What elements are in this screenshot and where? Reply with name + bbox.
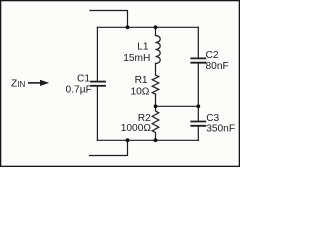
svg-text:15mH: 15mH: [123, 53, 150, 64]
resistor R1: [152, 75, 159, 94]
svg-text:1000Ω: 1000Ω: [121, 123, 152, 134]
resistor R2: [152, 106, 159, 140]
wire middle rail: [156, 105, 199, 107]
svg-text:C3: C3: [206, 113, 219, 124]
wire C3 to bottom rail: [197, 126, 199, 141]
node junction bottom left: [126, 138, 130, 142]
svg-text:10Ω: 10Ω: [130, 86, 149, 97]
svg-text:L1: L1: [137, 42, 149, 53]
svg-text:350nF: 350nF: [206, 124, 235, 135]
wire right branch upper: [197, 27, 199, 58]
svg-text:0.7µF: 0.7µF: [66, 85, 92, 96]
svg-text:80nF: 80nF: [206, 61, 229, 72]
wire left branch upper: [96, 27, 98, 81]
capacitor C3: [191, 122, 205, 126]
svg-text:R1: R1: [135, 75, 148, 86]
svg-text:C2: C2: [206, 50, 219, 61]
node junction top L1: [154, 25, 158, 29]
node junction mid right: [196, 104, 200, 108]
wire mid rail to C3: [197, 106, 199, 121]
wire top rail: [97, 26, 198, 28]
input impedance arrow: [28, 80, 49, 86]
image border frame: [1, 1, 240, 167]
wire L1 to R1: [155, 64, 157, 76]
wire R1 to mid rail: [155, 94, 157, 106]
capacitor C1: [91, 82, 105, 86]
node junction bottom R2: [154, 138, 158, 142]
wire C2 to mid rail: [197, 63, 199, 107]
node junction mid left: [154, 104, 158, 108]
wire top input stub: [90, 11, 128, 28]
wire top of L1: [155, 27, 157, 35]
svg-text:C1: C1: [77, 74, 90, 85]
node junction top-left: [126, 25, 130, 29]
wire bottom output stub: [90, 140, 128, 155]
wire bottom rail: [97, 139, 198, 141]
capacitor C2: [191, 58, 205, 62]
wire left branch lower: [96, 86, 98, 141]
svg-text:ZIN: ZIN: [11, 78, 25, 89]
inductor L1: [156, 36, 161, 64]
